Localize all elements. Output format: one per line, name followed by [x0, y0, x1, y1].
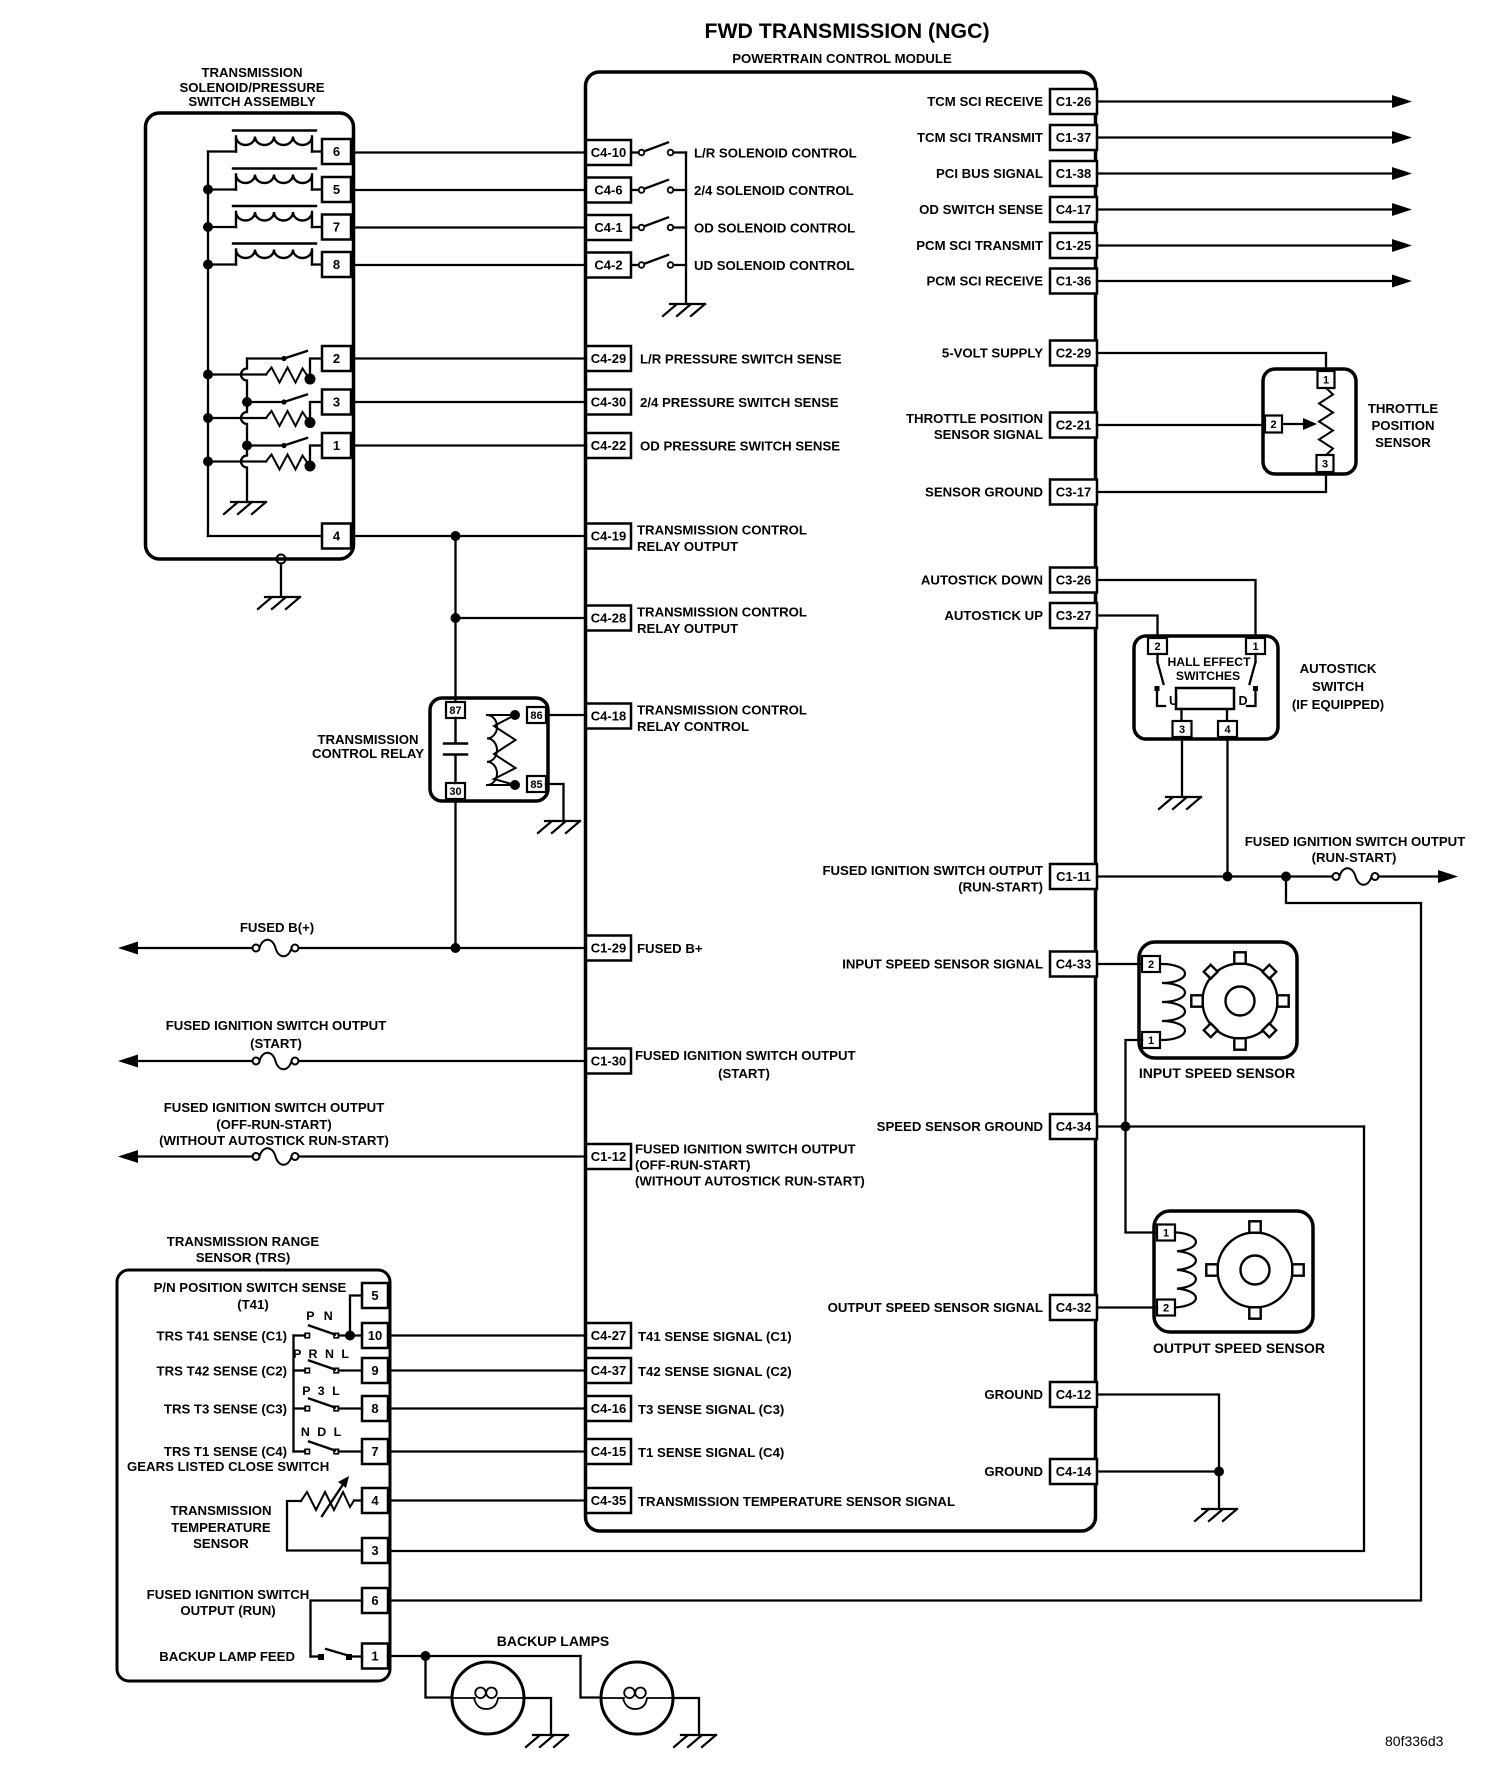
svg-text:C4-34: C4-34 [1056, 1119, 1092, 1134]
pin C4-35 PCM [586, 1488, 631, 1513]
svg-text:PCM SCI TRANSMIT: PCM SCI TRANSMIT [916, 238, 1043, 253]
svg-text:C2-29: C2-29 [1056, 346, 1091, 361]
svg-text:OD SWITCH SENSE: OD SWITCH SENSE [919, 202, 1043, 217]
wire fuse to arrow [138, 947, 253, 949]
svg-text:SENSOR (TRS): SENSOR (TRS) [196, 1250, 291, 1265]
wire C4-14 ground [1097, 1470, 1219, 1472]
wire C1-29 to fuse [298, 947, 586, 949]
wire fuse to arrow (OFF-RUN-START) [138, 1155, 253, 1157]
svg-text:C4-2: C4-2 [594, 258, 622, 273]
wire resistor-to-switch link pin 2 [309, 361, 311, 380]
TPS wiper arrow [1283, 418, 1318, 430]
svg-text:UD SOLENOID CONTROL: UD SOLENOID CONTROL [694, 258, 854, 273]
svg-text:C3-17: C3-17 [1056, 485, 1091, 500]
svg-text:TEMPERATURE: TEMPERATURE [171, 1520, 271, 1535]
svg-text:FUSED IGNITION SWITCH OUTPUT: FUSED IGNITION SWITCH OUTPUT [822, 863, 1043, 878]
svg-text:SENSOR SIGNAL: SENSOR SIGNAL [934, 427, 1043, 442]
pin C4-34 PCM [1050, 1114, 1097, 1139]
wire run-start branch to TRS pin 6 (long route) [388, 877, 1421, 1601]
wire switch to pin 3 [310, 401, 322, 403]
driver switch OD SOLENOID CONTROL [631, 218, 686, 231]
svg-text:D: D [1239, 694, 1248, 708]
assembly case terminal circle [277, 555, 286, 564]
TRS switch row pin 8 [294, 1399, 363, 1411]
transmission solenoid/pressure switch assembly box [146, 113, 354, 559]
pin C4-29 PCM [586, 346, 631, 371]
backup lamp switch [311, 1649, 363, 1660]
arrow C1-26 off-page [1392, 95, 1412, 108]
pin C4-12 PCM [1050, 1382, 1097, 1407]
svg-text:T3 SENSE SIGNAL (C3): T3 SENSE SIGNAL (C3) [638, 1402, 784, 1417]
wire resistor feed row pin 1 (with hop) [208, 460, 266, 462]
pin 1 TPS [1318, 371, 1335, 388]
svg-text:FUSED IGNITION SWITCH OUTPUT: FUSED IGNITION SWITCH OUTPUT [164, 1100, 385, 1115]
wire C3-17 to TPS pin 3 [1097, 473, 1326, 492]
wire junction to ground [1218, 1472, 1220, 1509]
backup lamp 2 [601, 1662, 673, 1734]
TRS switch row pin 7 [294, 1442, 363, 1454]
pressure switch blade pin 1 [284, 438, 307, 446]
svg-text:C1-12: C1-12 [591, 1149, 626, 1164]
wire temp sensor to pin 3 [287, 1501, 362, 1551]
svg-text:C2-21: C2-21 [1056, 418, 1091, 433]
wire resistor feed row pin 2 (with hop) [208, 373, 266, 375]
svg-text:P R N L: P R N L [293, 1347, 351, 1361]
TRS switch row pin 10 [294, 1326, 363, 1338]
svg-text:8: 8 [333, 257, 340, 272]
wire coil 5 right lead [312, 188, 322, 190]
wire resistor-to-switch link pin 1 [309, 448, 311, 467]
pin C1-29 PCM [586, 936, 631, 961]
svg-text:1: 1 [1252, 641, 1258, 653]
wire speed sensor ground long route to TRS pin 3 [388, 1127, 1364, 1552]
junction switch common pin3 row [242, 397, 252, 407]
svg-text:OD PRESSURE SWITCH SENSE: OD PRESSURE SWITCH SENSE [640, 439, 840, 454]
svg-text:5: 5 [333, 182, 340, 197]
wire fuse to arrow (START) [138, 1060, 253, 1062]
pin 4 assembly [322, 524, 351, 549]
label: FUSED IGNITION SWITCH OUTPUT (OFF-RUN-START) left [159, 1100, 389, 1148]
ground backup lamp 2 [674, 1735, 716, 1747]
pin C4-14 PCM [1050, 1459, 1097, 1484]
pin C2-21 PCM [1050, 413, 1097, 438]
pin 3 TRS [362, 1538, 388, 1563]
svg-text:2: 2 [333, 351, 340, 366]
wire C1-26 off-page [1097, 100, 1392, 102]
svg-text:T41 SENSE SIGNAL (C1): T41 SENSE SIGNAL (C1) [638, 1329, 792, 1344]
autostick switch box [1134, 636, 1278, 739]
pin C4-6 PCM [586, 178, 631, 203]
pressure switch contact lead pin 3 [247, 401, 284, 403]
pin 4 autostick [1218, 721, 1237, 737]
hall switch U blade [1155, 654, 1166, 706]
ground pressure switches [224, 502, 266, 514]
junction relay feed top [451, 531, 461, 541]
svg-text:OUTPUT SPEED SENSOR SIGNAL: OUTPUT SPEED SENSOR SIGNAL [828, 1300, 1043, 1315]
junction bus row pin 2 [203, 370, 213, 380]
wire switch to pin 1 [310, 444, 322, 446]
svg-text:TCM SCI TRANSMIT: TCM SCI TRANSMIT [917, 130, 1043, 145]
wire C4-17 off-page [1097, 208, 1392, 210]
svg-text:C4-14: C4-14 [1056, 1464, 1092, 1479]
pin C4-15 PCM [586, 1439, 631, 1464]
svg-text:SOLENOID/PRESSURE: SOLENOID/PRESSURE [179, 80, 324, 95]
wire C1-30 to fuse [298, 1060, 586, 1062]
pin C4-1 PCM [586, 215, 631, 240]
svg-text:FUSED B(+): FUSED B(+) [240, 920, 314, 935]
pressure switch resistor (pin 1) [266, 455, 309, 470]
svg-text:9: 9 [371, 1363, 378, 1378]
svg-text:OUTPUT (RUN): OUTPUT (RUN) [180, 1603, 275, 1618]
svg-text:C3-26: C3-26 [1056, 573, 1091, 588]
svg-text:1: 1 [371, 1649, 378, 1664]
wire to C4-6 [351, 189, 586, 191]
svg-text:RELAY OUTPUT: RELAY OUTPUT [637, 621, 738, 636]
wire C1-12 to fuse [298, 1155, 586, 1157]
throttle position sensor box [1263, 369, 1356, 474]
arrow C1-36 off-page [1392, 275, 1412, 288]
pin 86 relay [527, 707, 546, 723]
wire switch to pin 2 [310, 357, 322, 359]
relay coil [487, 715, 515, 785]
pin C1-11 PCM [1050, 864, 1097, 889]
svg-text:FUSED IGNITION SWITCH: FUSED IGNITION SWITCH [147, 1587, 310, 1602]
junction autostick pin4 [1223, 872, 1233, 882]
fuse B+ [253, 940, 299, 957]
pin C3-17 PCM [1050, 480, 1097, 505]
wire to C4-10 [351, 151, 586, 153]
svg-text:(OFF-RUN-START): (OFF-RUN-START) [216, 1117, 331, 1132]
wire lamp 1 to ground [524, 1698, 551, 1734]
svg-text:INPUT SPEED SENSOR: INPUT SPEED SENSOR [1139, 1065, 1295, 1081]
svg-text:C4-19: C4-19 [591, 529, 626, 544]
svg-text:TRS T41 SENSE (C1): TRS T41 SENSE (C1) [157, 1329, 287, 1344]
driver switch L/R SOLENOID CONTROL [631, 143, 686, 156]
svg-text:C4-29: C4-29 [591, 351, 626, 366]
svg-text:P N: P N [306, 1309, 335, 1323]
svg-text:INPUT SPEED SENSOR SIGNAL: INPUT SPEED SENSOR SIGNAL [842, 957, 1043, 972]
pin 8 TRS [362, 1396, 388, 1421]
svg-text:C4-17: C4-17 [1056, 202, 1091, 217]
wire C4-34 speed sensor ground [1097, 1125, 1364, 1127]
wire C1-37 off-page [1097, 136, 1392, 138]
svg-text:FUSED IGNITION SWITCH OUTPUT: FUSED IGNITION SWITCH OUTPUT [1245, 834, 1466, 849]
wire solenoid driver common [685, 153, 687, 304]
wire junction to lamp 1 [426, 1656, 453, 1698]
wire relay vertical upper [454, 536, 456, 702]
pin C1-36 PCM [1050, 269, 1097, 294]
wire 85 to ground [546, 784, 564, 820]
pin 1 autostick [1246, 638, 1265, 654]
svg-text:(WITHOUT AUTOSTICK RUN-START): (WITHOUT AUTOSTICK RUN-START) [635, 1174, 865, 1189]
wire relay vertical lower (pin30 to fused B+) [454, 799, 456, 948]
svg-text:L/R SOLENOID CONTROL: L/R SOLENOID CONTROL [694, 146, 857, 161]
svg-text:TRANSMISSION: TRANSMISSION [201, 65, 302, 80]
svg-text:C1-11: C1-11 [1056, 869, 1091, 884]
svg-text:C4-6: C4-6 [594, 183, 622, 198]
junction coil bus pin8 [203, 260, 213, 270]
wire T41 to pin 5 [350, 1296, 362, 1336]
pin C1-38 PCM [1050, 161, 1097, 186]
svg-text:1: 1 [1148, 1035, 1154, 1047]
junction speed sensor ground [1121, 1122, 1131, 1132]
svg-text:C1-30: C1-30 [591, 1054, 626, 1069]
junction resistor end pin 3 [305, 417, 316, 428]
solenoid coil (pin 8) [233, 244, 316, 265]
svg-text:C1-36: C1-36 [1056, 274, 1091, 289]
pin C1-25 PCM [1050, 233, 1097, 258]
svg-text:5-VOLT SUPPLY: 5-VOLT SUPPLY [942, 346, 1043, 361]
junction switch common pin1 row [242, 441, 252, 451]
pin 5 assembly [322, 177, 351, 202]
wire pin4 to C4-19 [351, 535, 586, 537]
wire C3-27 to autostick pin 2 [1097, 616, 1158, 638]
junction fused B+ tap [451, 943, 461, 953]
pressure switch contact lead pin 1 [247, 444, 284, 446]
wire temp sensor to pin 4 [354, 1499, 362, 1501]
svg-text:C4-10: C4-10 [591, 145, 626, 160]
junction run-start branch [1281, 872, 1291, 882]
wire coil 8 right lead [312, 263, 322, 265]
relay coil zigzag [494, 715, 516, 785]
svg-text:C4-27: C4-27 [591, 1328, 626, 1343]
solenoid coil (pin 6) [233, 131, 316, 152]
wire to C4-30 [351, 401, 586, 403]
TPS potentiometer resistor [1319, 388, 1333, 455]
svg-text:C1-25: C1-25 [1056, 238, 1091, 253]
ground autostick [1159, 797, 1201, 809]
wire coil 6 left lead [208, 150, 236, 152]
svg-text:1: 1 [1323, 375, 1329, 387]
pin C4-17 PCM [1050, 197, 1097, 222]
svg-text:RELAY CONTROL: RELAY CONTROL [637, 719, 749, 734]
svg-text:(RUN-START): (RUN-START) [1312, 850, 1397, 865]
wire autostick pin 3 to ground [1181, 737, 1183, 796]
svg-text:C4-12: C4-12 [1056, 1387, 1091, 1402]
pin 10 TRS [362, 1323, 388, 1348]
junction relay coil bottom [510, 780, 520, 790]
svg-text:SENSOR: SENSOR [1375, 435, 1431, 450]
wire lamp 2 to ground [673, 1698, 699, 1734]
pin 3 assembly [322, 390, 351, 415]
junction bus row pin 1 [203, 457, 213, 467]
svg-text:(WITHOUT AUTOSTICK RUN-START): (WITHOUT AUTOSTICK RUN-START) [159, 1133, 389, 1148]
wire TRS pin 1 backup lamp feed [388, 1655, 581, 1657]
transmission temperature sensor resistor [301, 1492, 354, 1510]
backup lamp 1 [452, 1662, 524, 1734]
svg-text:3: 3 [333, 395, 340, 410]
svg-text:6: 6 [371, 1593, 378, 1608]
input speed sensor coil [1160, 964, 1185, 1040]
svg-text:GEARS LISTED CLOSE SWITCH: GEARS LISTED CLOSE SWITCH [127, 1459, 329, 1474]
svg-text:T1 SENSE SIGNAL (C4): T1 SENSE SIGNAL (C4) [638, 1445, 784, 1460]
output speed sensor coil [1175, 1233, 1196, 1308]
wire C1-36 off-page [1097, 280, 1392, 282]
wire C3-26 to autostick pin 1 [1097, 580, 1256, 637]
svg-text:FWD TRANSMISSION (NGC): FWD TRANSMISSION (NGC) [704, 19, 989, 43]
arrow fused B(+) off-page [118, 942, 138, 955]
wire C4-32 to output speed sensor pin 2 [1097, 1306, 1157, 1308]
solenoid coil (pin 5) [233, 169, 316, 190]
pin C4-32 PCM [1050, 1295, 1097, 1320]
svg-text:SENSOR: SENSOR [193, 1536, 249, 1551]
svg-text:TRANSMISSION: TRANSMISSION [317, 732, 418, 747]
svg-text:7: 7 [371, 1444, 378, 1459]
svg-text:POWERTRAIN CONTROL MODULE: POWERTRAIN CONTROL MODULE [732, 51, 952, 66]
ground assembly case [258, 597, 300, 609]
pressure switch blade pin 2 [284, 351, 307, 359]
svg-text:AUTOSTICK: AUTOSTICK [1300, 661, 1377, 676]
svg-text:1: 1 [1163, 1228, 1169, 1240]
svg-text:BACKUP LAMPS: BACKUP LAMPS [497, 1633, 610, 1649]
svg-text:TRANSMISSION CONTROL: TRANSMISSION CONTROL [637, 703, 807, 718]
svg-text:HALL EFFECT: HALL EFFECT [1167, 655, 1251, 669]
wire 86 to C4-18 [546, 714, 586, 716]
svg-text:SPEED SENSOR GROUND: SPEED SENSOR GROUND [877, 1119, 1043, 1134]
wire assembly case to ground [280, 564, 282, 597]
pin C4-18 PCM [586, 704, 631, 729]
junction relay coil top [510, 710, 520, 720]
label: TRANSMISSION CONTROL RELAY [312, 732, 424, 761]
svg-text:TRANSMISSION: TRANSMISSION [170, 1503, 271, 1518]
fuse run-start [1333, 868, 1379, 885]
pin C1-30 PCM [586, 1049, 631, 1074]
svg-text:THROTTLE: THROTTLE [1368, 401, 1439, 416]
pin C4-28 PCM [586, 606, 631, 631]
output speed sensor tone wheel [1206, 1221, 1303, 1318]
pin 1 output speed sensor [1157, 1225, 1175, 1241]
wire C2-29 to TPS pin 1 [1097, 353, 1326, 370]
junction resistor end pin 1 [305, 461, 316, 472]
junction T41/pin5 [345, 1331, 355, 1341]
svg-text:GROUND: GROUND [984, 1464, 1043, 1479]
svg-text:(START): (START) [250, 1036, 302, 1051]
wire coil 7 right lead [312, 226, 322, 228]
PCM powertrain control module box [586, 72, 1096, 1531]
pin C4-10 PCM [586, 140, 631, 165]
pressure switch contact lead pin 2 [247, 357, 284, 359]
wire TRS pin 7 to C4-15 [388, 1450, 586, 1452]
pin C1-12 PCM [586, 1144, 631, 1169]
svg-text:OUTPUT SPEED SENSOR: OUTPUT SPEED SENSOR [1153, 1340, 1325, 1356]
svg-text:4: 4 [333, 529, 341, 544]
autostick internal block [1176, 688, 1234, 709]
label: TRANSMISSION RANGE SENSOR (TRS) [167, 1234, 320, 1265]
pin C1-26 PCM [1050, 89, 1097, 114]
fuse ignition (START) [253, 1053, 299, 1070]
svg-text:C4-35: C4-35 [591, 1493, 626, 1508]
arrow fused ignition (OFF-RUN-START) off-page [118, 1150, 138, 1163]
svg-text:SWITCHES: SWITCHES [1176, 669, 1240, 683]
svg-text:(RUN-START): (RUN-START) [958, 880, 1043, 895]
svg-text:T42 SENSE SIGNAL (C2): T42 SENSE SIGNAL (C2) [638, 1364, 792, 1379]
wire bus to pin 4 [208, 535, 322, 537]
svg-text:C1-37: C1-37 [1056, 130, 1091, 145]
pin 2 output speed sensor [1157, 1300, 1175, 1316]
svg-text:6: 6 [333, 144, 340, 159]
wire fuse to arrow run-start [1379, 875, 1439, 877]
capacitor relay suppression [444, 718, 467, 783]
pin C4-33 PCM [1050, 952, 1097, 977]
temperature sensor arrow [322, 1476, 349, 1516]
wire TRS pin 9 to C4-37 [388, 1369, 586, 1371]
svg-text:L/R PRESSURE SWITCH SENSE: L/R PRESSURE SWITCH SENSE [640, 352, 842, 367]
svg-text:10: 10 [368, 1328, 382, 1343]
pin 2 autostick [1148, 638, 1167, 654]
wire coil 8 left lead [208, 263, 236, 265]
wire solenoid bus vertical [207, 152, 209, 537]
svg-text:FUSED IGNITION SWITCH OUTPUT: FUSED IGNITION SWITCH OUTPUT [635, 1048, 856, 1063]
svg-text:TRANSMISSION CONTROL: TRANSMISSION CONTROL [637, 605, 807, 620]
svg-text:C4-18: C4-18 [591, 709, 626, 724]
svg-text:C4-28: C4-28 [591, 611, 626, 626]
driver switch UD SOLENOID CONTROL [631, 255, 686, 268]
junction bus row pin 3 [203, 413, 213, 423]
pin 3 autostick [1173, 721, 1192, 737]
wire block to pin 3 [1180, 709, 1182, 721]
svg-text:TRS T3 SENSE (C3): TRS T3 SENSE (C3) [164, 1402, 287, 1417]
junction PCM grounds [1214, 1467, 1224, 1477]
fuse ignition (OFF-RUN-START) [253, 1148, 299, 1165]
pin C4-22 PCM [586, 433, 631, 458]
svg-text:OD SOLENOID CONTROL: OD SOLENOID CONTROL [694, 221, 855, 236]
svg-text:4: 4 [1224, 724, 1231, 736]
svg-text:8: 8 [371, 1401, 378, 1416]
wire junction to input sensor pin 1 [1126, 1040, 1143, 1127]
svg-text:TRANSMISSION TEMPERATURE SENSO: TRANSMISSION TEMPERATURE SENSOR SIGNAL [638, 1494, 955, 1509]
svg-text:2/4 PRESSURE SWITCH SENSE: 2/4 PRESSURE SWITCH SENSE [640, 395, 839, 410]
svg-text:86: 86 [530, 710, 542, 722]
wire C1-25 off-page [1097, 244, 1392, 246]
wire coil 6 right lead [312, 150, 322, 152]
wire TRS pin 10 to C4-27 [388, 1334, 586, 1336]
svg-text:C4-15: C4-15 [591, 1444, 626, 1459]
wire C4-12 ground [1097, 1395, 1219, 1472]
arrow C1-25 off-page [1392, 239, 1412, 252]
pin 30 relay [446, 783, 465, 799]
svg-text:3: 3 [1322, 459, 1328, 471]
junction backup lamp feed [421, 1651, 431, 1661]
svg-text:CONTROL RELAY: CONTROL RELAY [312, 746, 424, 761]
svg-text:TRS T42 SENSE (C2): TRS T42 SENSE (C2) [157, 1364, 287, 1379]
ground PCM grounds [1195, 1509, 1237, 1521]
pressure switch resistor (pin 2) [266, 368, 309, 383]
label: FUSED IGNITION SWITCH OUTPUT (RUN-START) right [1245, 834, 1466, 865]
svg-text:2/4 SOLENOID CONTROL: 2/4 SOLENOID CONTROL [694, 183, 854, 198]
label: TRANSMISSION SOLENOID/PRESSURE SWITCH ASSEMBLY [179, 65, 324, 109]
pin 6 assembly [322, 139, 351, 164]
pin 7 assembly [322, 215, 351, 240]
junction coil bus pin5 [203, 185, 213, 195]
svg-text:2: 2 [1148, 959, 1154, 971]
svg-text:N D L: N D L [301, 1425, 343, 1439]
wire C1-38 off-page [1097, 172, 1392, 174]
wire to C4-1 [351, 226, 586, 228]
svg-text:C1-38: C1-38 [1056, 166, 1091, 181]
pressure switch blade pin 3 [284, 395, 307, 403]
arrow C1-37 off-page [1392, 131, 1412, 144]
pin 1 TRS [362, 1644, 388, 1669]
pin 2 assembly [322, 346, 351, 371]
svg-text:C4-32: C4-32 [1056, 1300, 1091, 1315]
wire coil 7 left lead [208, 226, 236, 228]
pin 3 TPS [1317, 455, 1334, 472]
svg-text:C4-33: C4-33 [1056, 957, 1091, 972]
svg-text:RELAY OUTPUT: RELAY OUTPUT [637, 539, 738, 554]
pin 6 TRS [362, 1588, 388, 1613]
svg-text:30: 30 [449, 786, 461, 798]
svg-text:SWITCH ASSEMBLY: SWITCH ASSEMBLY [188, 94, 315, 109]
